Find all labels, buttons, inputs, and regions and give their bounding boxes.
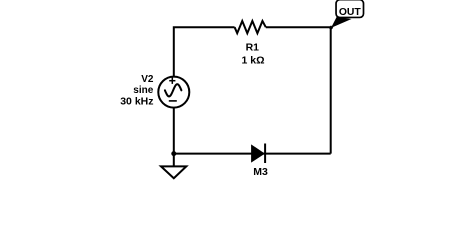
wire top-left (from source top up and right to resistor) (174, 27, 235, 76)
sine wave (165, 84, 182, 96)
diode M3 cathode bar (264, 144, 266, 164)
minus sign (169, 100, 177, 102)
svg-text:OUT: OUT (339, 7, 362, 18)
OUT flag box (336, 0, 363, 17)
svg-text:30 kHz: 30 kHz (120, 95, 153, 107)
OUT flag pointer (331, 17, 352, 28)
svg-text:V2: V2 (141, 74, 154, 85)
junction dot bottom (171, 151, 176, 156)
svg-text:R1: R1 (246, 41, 260, 53)
ground (161, 166, 186, 178)
wire left vertical lower (source bottom to ground) (173, 108, 175, 167)
diode M3 triangle (252, 145, 264, 161)
wire right vertical (330, 27, 332, 153)
wire top-right horizontal (266, 26, 331, 28)
node diamond at OUT (329, 25, 334, 30)
source V2 circle (158, 77, 189, 108)
svg-text:1 kΩ: 1 kΩ (241, 54, 264, 66)
resistor R1 (235, 21, 266, 33)
plus sign (169, 80, 175, 82)
svg-text:M3: M3 (253, 166, 268, 178)
wire bottom horizontal (174, 153, 331, 155)
